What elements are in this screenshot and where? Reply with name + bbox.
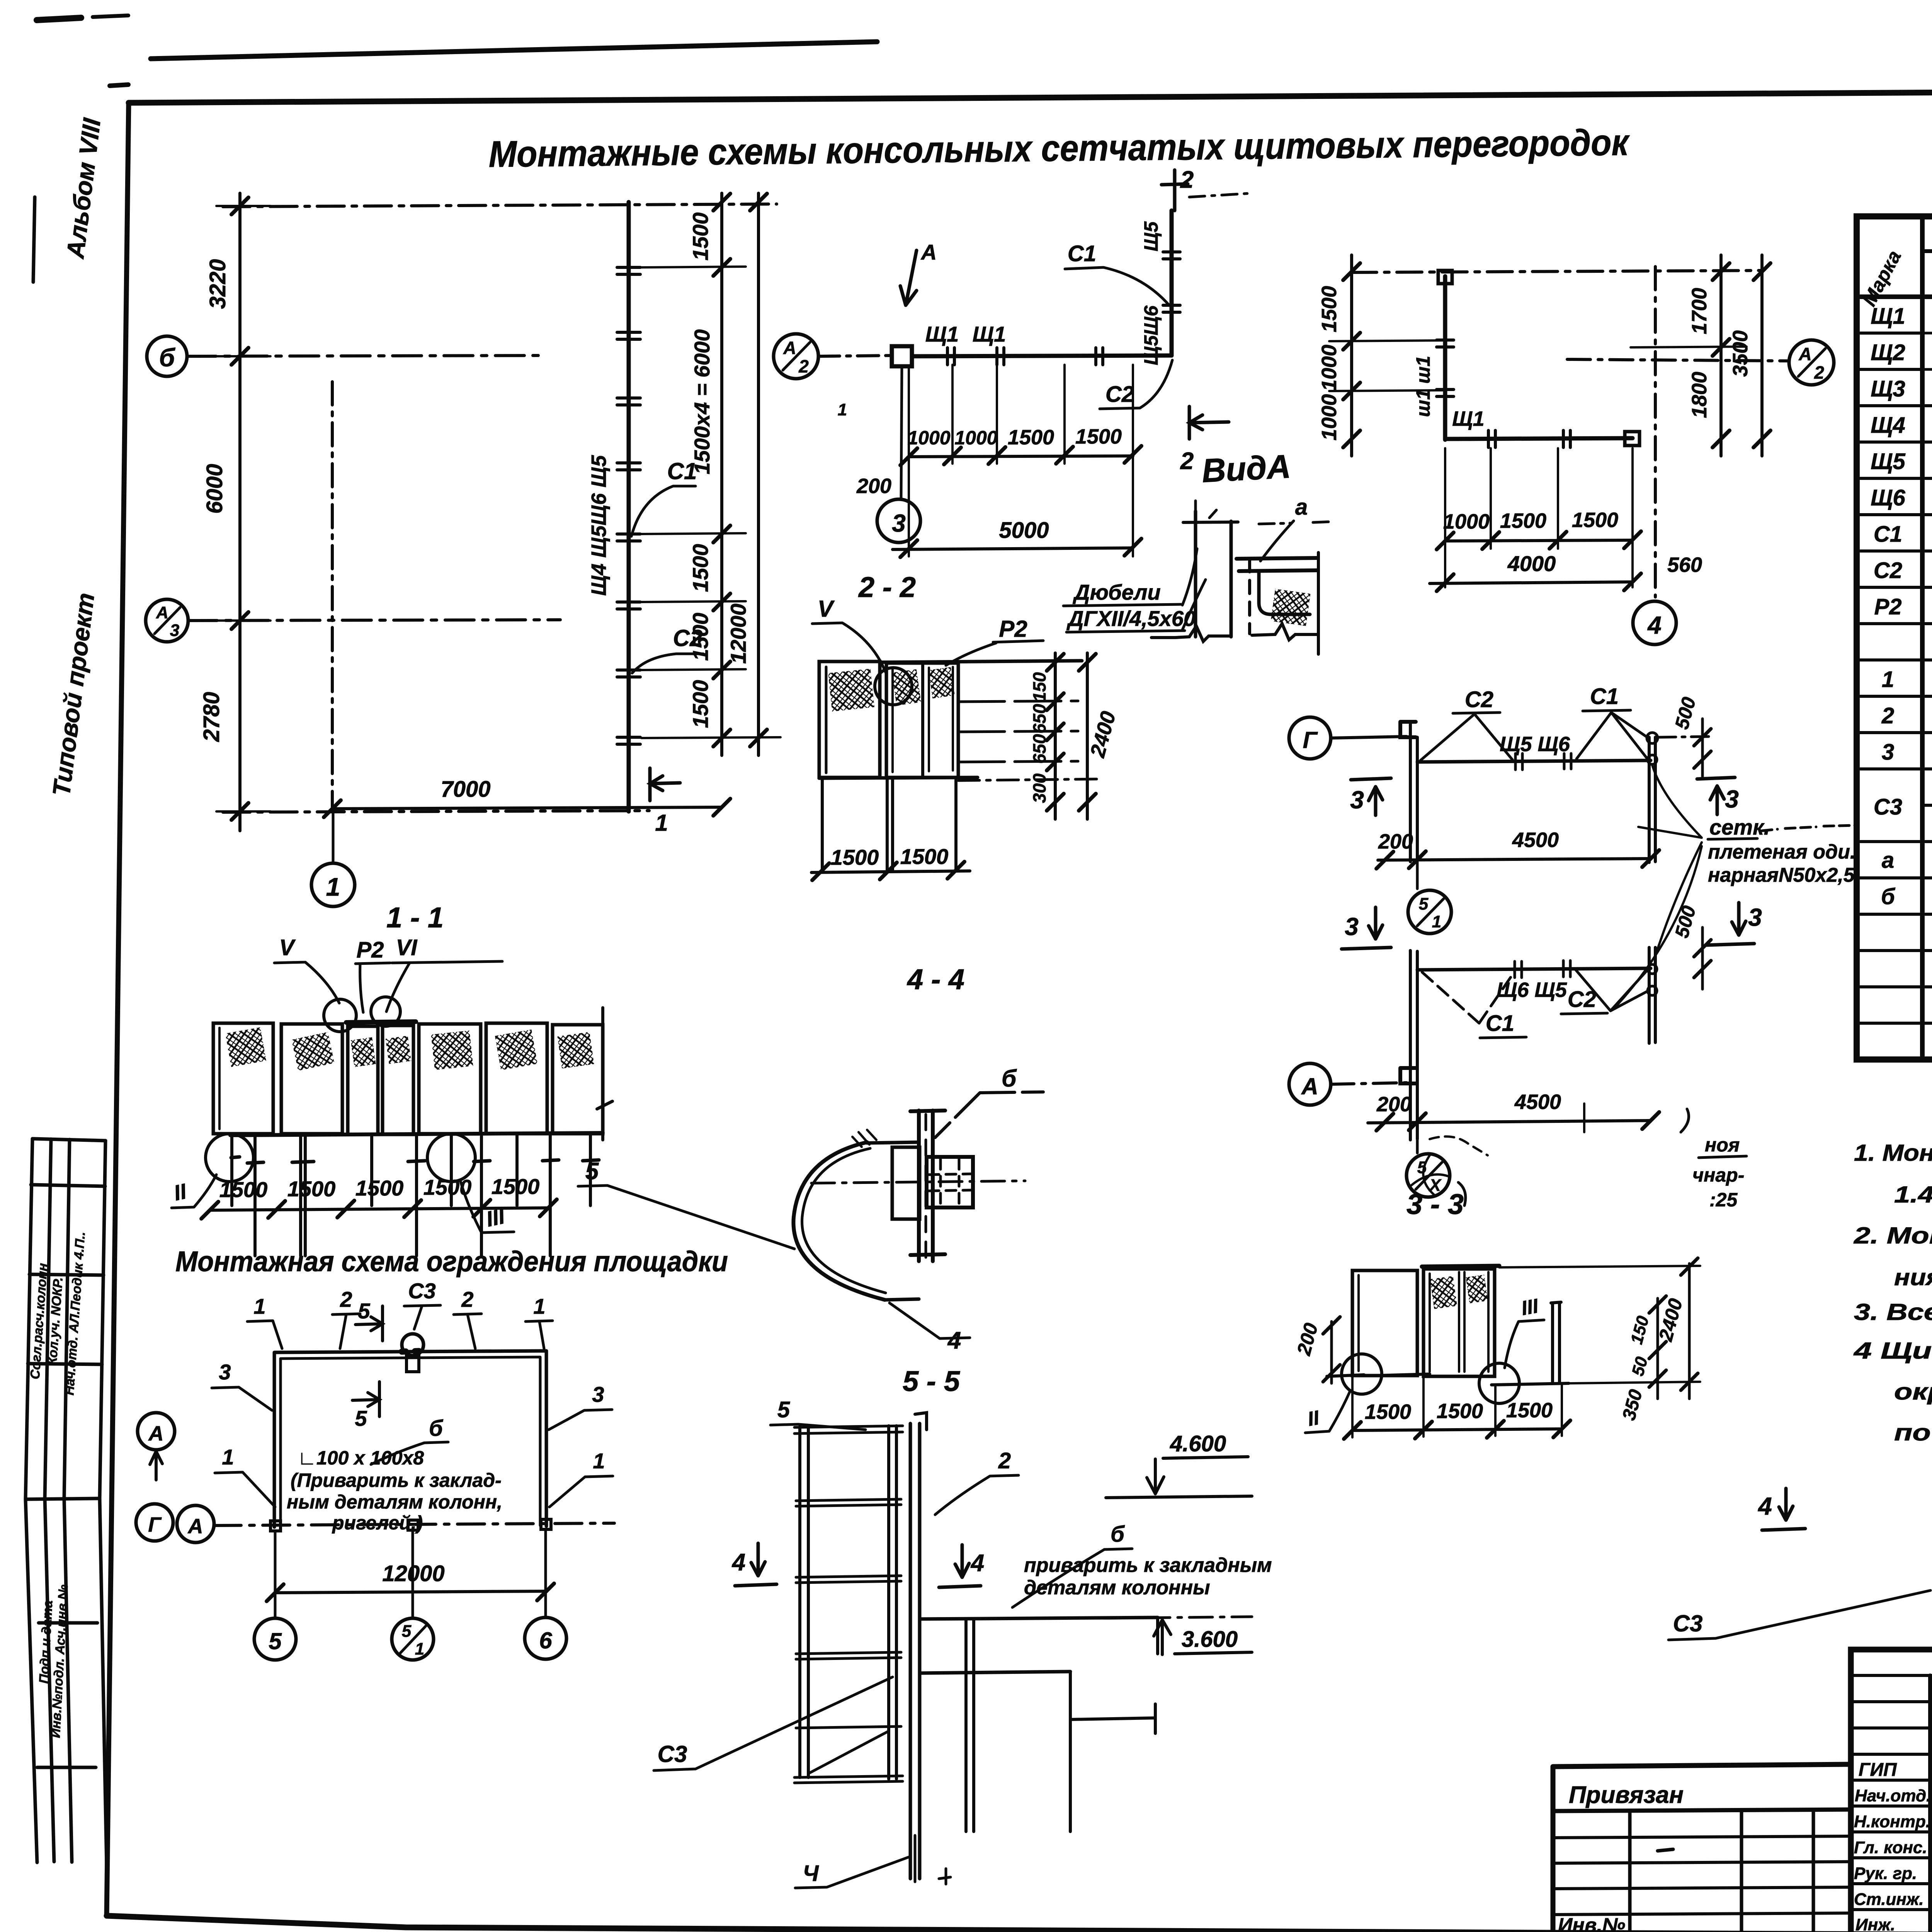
header group line bbox=[1922, 249, 1932, 253]
svg-text:1500: 1500 bbox=[1008, 426, 1054, 449]
grid circle A with arrow bbox=[138, 1413, 175, 1450]
leader fan from setka bbox=[1617, 765, 1702, 1005]
axis line down to circle 3 bbox=[901, 366, 902, 499]
vertical partition joints bbox=[1163, 252, 1180, 312]
plan inner vertical chain bbox=[331, 382, 334, 807]
svg-text:2: 2 bbox=[1814, 362, 1824, 383]
dash in cell bbox=[1658, 1849, 1673, 1851]
detail circle III bbox=[427, 1134, 475, 1182]
top bar over panels 3-4 bbox=[346, 1022, 416, 1022]
axis to circle 5/1 crossed bbox=[1416, 1139, 1419, 1153]
bracket vertical double line bbox=[919, 1111, 933, 1261]
top bar over panel B bbox=[1422, 1266, 1499, 1267]
fence top break (gate) bbox=[402, 1351, 424, 1352]
svg-text:1500: 1500 bbox=[1506, 1399, 1553, 1422]
svg-text:1000: 1000 bbox=[1318, 394, 1341, 440]
svg-text:2. Монтаж перегородок вест: 2. Монтаж перегородок вести в соответств… bbox=[1854, 1223, 1932, 1248]
leader C2 bbox=[632, 654, 703, 673]
svg-text:1500: 1500 bbox=[1500, 509, 1546, 532]
svg-text:Инж.: Инж. bbox=[1855, 1915, 1895, 1932]
brace C2 triangle lower bbox=[1576, 970, 1648, 1011]
svg-text:Гл. конс.: Гл. конс. bbox=[1854, 1838, 1927, 1857]
partition horizontal line bbox=[1445, 438, 1633, 439]
partition line vertical bbox=[1170, 211, 1174, 355]
svg-text:1: 1 bbox=[1882, 667, 1894, 692]
grid circle B bbox=[147, 336, 187, 376]
svg-text:Г: Г bbox=[1303, 727, 1318, 753]
svg-text:4: 4 bbox=[1757, 1492, 1772, 1520]
svg-text:Монтажная схема ограждения пло: Монтажная схема ограждения площадки bbox=[175, 1245, 728, 1277]
svg-text:С2: С2 bbox=[1874, 558, 1902, 583]
svg-text:200: 200 bbox=[1376, 1093, 1412, 1116]
svg-text:7000: 7000 bbox=[440, 777, 490, 802]
corner element double horizontals bbox=[1236, 558, 1317, 571]
right boundary line bbox=[1317, 553, 1320, 654]
svg-text:Щ1: Щ1 bbox=[1871, 304, 1905, 329]
extension lines to dim line 1 bbox=[641, 267, 781, 738]
weld ticks at top connection bbox=[852, 1130, 876, 1147]
section mark 2 top bbox=[1162, 170, 1188, 211]
svg-text:ноя: ноя bbox=[1705, 1134, 1740, 1156]
svg-text:4500: 4500 bbox=[1512, 828, 1559, 852]
panel 2 mesh patches bbox=[892, 669, 921, 706]
axis to circle 5/1 bbox=[1416, 862, 1419, 889]
chain from A bbox=[1331, 1083, 1406, 1084]
svg-text:С1: С1 bbox=[1486, 1011, 1514, 1036]
dim line 200/4500 upper bbox=[1378, 859, 1651, 860]
wall vertical line 1 bbox=[1194, 511, 1197, 637]
grid circle A lower bbox=[1289, 1063, 1331, 1105]
panel A plain bbox=[1352, 1270, 1417, 1376]
svg-text:4.600: 4.600 bbox=[1170, 1431, 1226, 1456]
panel 1 frame bbox=[819, 662, 880, 777]
svg-text:4500: 4500 bbox=[1514, 1090, 1561, 1114]
svg-text:Щ1: Щ1 bbox=[1452, 407, 1484, 430]
svg-text:1 - 1: 1 - 1 bbox=[386, 901, 444, 934]
vertical member upper bbox=[1410, 722, 1417, 862]
left vertical dimension line bbox=[238, 193, 241, 831]
post circle on top edge bbox=[402, 1334, 423, 1355]
extension verticals for dims bbox=[909, 365, 1133, 556]
column line Marka bbox=[1920, 216, 1925, 1060]
section arrow A (top) bbox=[900, 250, 917, 305]
svg-text:ДГХІІ/4,5х60: ДГХІІ/4,5х60 bbox=[1066, 606, 1196, 631]
right dims 150/50 bbox=[1656, 1298, 1659, 1399]
svg-text:Г: Г bbox=[148, 1513, 162, 1536]
svg-text:3: 3 bbox=[1748, 903, 1762, 931]
svg-text:Щ5: Щ5 bbox=[1140, 221, 1162, 251]
svg-text:С1: С1 bbox=[1590, 684, 1619, 709]
column axis circle 1 bbox=[332, 812, 335, 862]
bracket center dashed axis bbox=[925, 1114, 927, 1258]
dim 200 left bbox=[1330, 1321, 1333, 1383]
svg-text:1700: 1700 bbox=[1688, 288, 1711, 334]
column bracket lower bbox=[1400, 1068, 1416, 1083]
dim 500 lower bbox=[1701, 927, 1704, 989]
svg-text:Р2: Р2 bbox=[1874, 594, 1902, 619]
column axis circle 4 bbox=[1633, 601, 1676, 645]
panel joints bbox=[947, 348, 1103, 365]
section 3 up-arrow left bbox=[1351, 778, 1391, 815]
axis circle 5 bbox=[254, 1618, 296, 1660]
svg-text:Щ1: Щ1 bbox=[973, 322, 1006, 346]
dim line 12000 (vertical) bbox=[757, 193, 760, 755]
svg-text:Ч: Ч bbox=[803, 1861, 819, 1886]
svg-text:ш1 ш1: ш1 ш1 bbox=[1412, 356, 1434, 417]
dim line 7000 (horizontal) bbox=[332, 807, 722, 809]
panel joints on vertical partition bbox=[617, 267, 640, 744]
signature rows bbox=[1851, 1780, 1932, 1910]
bottom rail line bbox=[230, 1133, 603, 1135]
svg-text:Р2: Р2 bbox=[999, 616, 1027, 642]
panel 2 frame bbox=[886, 663, 958, 777]
svg-text:1500: 1500 bbox=[688, 613, 713, 661]
left paper edge tick bbox=[33, 197, 35, 282]
column axis circle 3 bbox=[877, 499, 920, 543]
svg-text:1500: 1500 bbox=[1437, 1400, 1483, 1423]
svg-text:С3: С3 bbox=[1673, 1611, 1703, 1636]
svg-text:3500: 3500 bbox=[1729, 330, 1752, 377]
grid circle A/2 left bbox=[774, 334, 818, 379]
svg-text:Щ2: Щ2 bbox=[1871, 340, 1905, 365]
svg-text:6000: 6000 bbox=[202, 464, 227, 514]
sheet border top bbox=[129, 88, 1932, 103]
panel 3 narrow bbox=[348, 1026, 378, 1134]
svg-text:Нач.отд.: Нач.отд. bbox=[1855, 1786, 1931, 1805]
svg-text:5000: 5000 bbox=[999, 518, 1049, 543]
svg-text:12000: 12000 bbox=[382, 1561, 444, 1586]
section 4 down-arrow bbox=[1762, 1488, 1805, 1530]
grid circle G bottom bbox=[136, 1504, 173, 1541]
svg-text:1: 1 bbox=[222, 1445, 234, 1469]
svg-text:560: 560 bbox=[1667, 553, 1702, 577]
svg-text:Р2: Р2 bbox=[357, 937, 384, 963]
svg-text:1: 1 bbox=[533, 1294, 545, 1318]
grid line A/3 chain bbox=[188, 620, 560, 621]
leader C1 bbox=[631, 486, 696, 536]
svg-text:1500: 1500 bbox=[287, 1177, 336, 1201]
grid circle A/3 bbox=[146, 599, 188, 642]
wall vertical line 2 bbox=[1230, 521, 1233, 637]
svg-text:2: 2 bbox=[340, 1287, 352, 1311]
top-left fold mark bbox=[110, 85, 128, 86]
svg-text:2: 2 bbox=[1180, 167, 1194, 193]
privyazan table frame bbox=[1553, 1764, 1851, 1932]
break zigzags bottom bbox=[1175, 626, 1231, 641]
dim line 1500 x5 bbox=[210, 1208, 548, 1210]
svg-text:4 - 4: 4 - 4 bbox=[906, 963, 964, 995]
corner vertical dashed bbox=[1248, 559, 1251, 634]
svg-text:Щ5Щ6: Щ5Щ6 bbox=[1140, 305, 1162, 366]
svg-text:нарнаяN50х2,5: нарнаяN50х2,5 bbox=[1708, 864, 1855, 886]
grating rungs bbox=[794, 1426, 903, 1783]
partition line horizontal bbox=[912, 355, 1172, 356]
legs below panels bbox=[822, 777, 956, 872]
upper partition line bbox=[1417, 760, 1651, 762]
svg-text:5: 5 bbox=[402, 1622, 412, 1641]
svg-text:4: 4 bbox=[947, 1327, 961, 1354]
panel 2 bbox=[281, 1024, 342, 1134]
panel 5 bbox=[419, 1024, 481, 1134]
svg-text:3: 3 bbox=[592, 1382, 604, 1406]
svg-text:1500: 1500 bbox=[688, 680, 713, 728]
clamp rect with hidden lines bbox=[927, 1157, 973, 1207]
chain stub right upper bbox=[1658, 736, 1712, 737]
svg-text:Щ1: Щ1 bbox=[925, 322, 959, 346]
panel 1 mesh bbox=[828, 669, 874, 712]
section 4 down arrow left bbox=[735, 1543, 777, 1586]
dim line 12000 bbox=[275, 1591, 546, 1593]
section 5 arrow lower bbox=[352, 1382, 379, 1417]
svg-text:1500: 1500 bbox=[688, 213, 713, 261]
ticks dim line 1 bbox=[713, 194, 730, 747]
svg-text:2780: 2780 bbox=[199, 692, 224, 742]
svg-text:2: 2 bbox=[461, 1287, 473, 1311]
svg-text:С2: С2 bbox=[1105, 382, 1134, 407]
svg-text:3.600: 3.600 bbox=[1182, 1627, 1238, 1652]
privyazan row line bbox=[1553, 1810, 1851, 1811]
svg-text:Щ4 Щ5Щ6 Щ5: Щ4 Щ5Щ6 Щ5 bbox=[587, 455, 611, 596]
svg-text:б: б bbox=[159, 343, 176, 372]
post feet bbox=[247, 1160, 599, 1163]
sheet border left bbox=[107, 103, 129, 1916]
svg-text:∟100 х 100х8: ∟100 х 100х8 bbox=[298, 1447, 424, 1469]
svg-text:(Приварить к заклад-: (Приварить к заклад- bbox=[291, 1469, 502, 1491]
grid circle G bbox=[1289, 717, 1331, 759]
fence rectangle outer bbox=[274, 1351, 546, 1527]
svg-text:1.431-10 вып. 2.: 1.431-10 вып. 2. bbox=[1894, 1182, 1932, 1207]
svg-text:3: 3 bbox=[1350, 786, 1364, 814]
svg-text:А: А bbox=[1798, 344, 1811, 364]
brace C1 triangle lower (apex down) bbox=[1420, 971, 1515, 1023]
panel 4 narrow bbox=[383, 1026, 413, 1134]
lower partition line bbox=[1417, 968, 1651, 970]
svg-text:1500х4 = 6000: 1500х4 = 6000 bbox=[690, 329, 714, 474]
chain from G bbox=[1331, 736, 1406, 738]
overall dim 5000 bbox=[893, 548, 1133, 549]
left dim line bbox=[1350, 255, 1353, 456]
svg-text:5: 5 bbox=[1419, 895, 1429, 913]
bottom dim line bbox=[1352, 1429, 1562, 1430]
corner frame bbox=[1259, 571, 1310, 614]
inspection circle on joint bbox=[875, 668, 912, 705]
detail circle right lower bbox=[1479, 1363, 1519, 1403]
section mark 2 bottom bbox=[1189, 406, 1229, 439]
inspection circle VI bbox=[371, 997, 400, 1026]
svg-text:плетеная оди.: плетеная оди. bbox=[1708, 841, 1855, 863]
brace C2 triangle upper bbox=[1420, 714, 1512, 760]
blank header rows bbox=[1851, 1675, 1932, 1754]
bottom dim line bbox=[811, 871, 970, 872]
svg-text:окрасить светлой серо - го: окрасить светлой серо - голубой эмалью П… bbox=[1894, 1379, 1932, 1405]
grating right rail bbox=[889, 1426, 896, 1779]
svg-text:200: 200 bbox=[1378, 830, 1413, 853]
column square bbox=[892, 346, 912, 366]
panel joints lower bbox=[1515, 961, 1570, 978]
dim 2400 right bbox=[1688, 1264, 1691, 1399]
svg-text:1: 1 bbox=[326, 872, 340, 901]
svg-text:1: 1 bbox=[593, 1449, 605, 1473]
svg-text:5: 5 bbox=[358, 1299, 370, 1323]
svg-text:3220: 3220 bbox=[205, 259, 230, 309]
svg-text:5: 5 bbox=[269, 1628, 282, 1654]
header bottom line bbox=[1857, 294, 1932, 299]
svg-text:С3: С3 bbox=[408, 1279, 436, 1303]
svg-text:4: 4 bbox=[970, 1550, 984, 1577]
detail circle II lower bbox=[1342, 1354, 1382, 1394]
section mark 1 (right) bbox=[650, 768, 680, 801]
svg-text:1800: 1800 bbox=[1688, 372, 1711, 418]
svg-text:3: 3 bbox=[219, 1360, 231, 1384]
svg-text:б: б bbox=[1111, 1522, 1125, 1547]
svg-text:б: б bbox=[1002, 1065, 1017, 1092]
hook-to-bracket connections bbox=[867, 1142, 919, 1300]
center chain line bbox=[811, 1181, 1025, 1183]
top short ticks bbox=[1196, 501, 1216, 533]
right dim line 1700/1800 bbox=[1719, 255, 1723, 456]
grid circle A/2 right bbox=[1789, 340, 1834, 385]
svg-text:4: 4 bbox=[731, 1549, 745, 1576]
bracket bottom cap bbox=[910, 1254, 945, 1255]
svg-text:а: а bbox=[1882, 848, 1894, 873]
svg-text:А: А bbox=[1301, 1073, 1318, 1099]
svg-text:4 Щитовые перегородки и: 4 Щитовые перегородки и ограждения площа… bbox=[1854, 1338, 1932, 1364]
svg-text:С2: С2 bbox=[1465, 687, 1493, 712]
svg-text:сетк.: сетк. bbox=[1709, 815, 1770, 839]
row lines bbox=[1857, 332, 1932, 335]
panel 7 bbox=[553, 1025, 603, 1134]
dim ticks on left dim line bbox=[231, 197, 248, 820]
svg-text:по одному слою лака ПФ -: по одному слою лака ПФ - 110. bbox=[1894, 1420, 1932, 1446]
svg-text:А: А bbox=[920, 240, 937, 264]
grating left rail bbox=[800, 1427, 808, 1777]
svg-text:Привязан: Привязан bbox=[1569, 1782, 1684, 1808]
plan top chain line bbox=[223, 204, 777, 207]
dim 2400 bbox=[1086, 653, 1089, 819]
svg-text:5: 5 bbox=[355, 1406, 367, 1430]
dim line 1500x4 (vertical) bbox=[720, 193, 723, 755]
svg-text:1. Монтажные узлы перег: 1. Монтажные узлы перегородок приняты по… bbox=[1854, 1140, 1932, 1166]
svg-text:2: 2 bbox=[798, 356, 809, 376]
detail circle II bbox=[206, 1134, 253, 1182]
svg-text:Инв.№: Инв.№ bbox=[1558, 1914, 1625, 1932]
svg-text:б: б bbox=[1881, 884, 1896, 909]
privyazan inner rows bbox=[1553, 1836, 1851, 1915]
svg-text:А: А bbox=[187, 1515, 203, 1538]
horizontal rails right bbox=[958, 701, 1078, 762]
right posts lower bbox=[1649, 947, 1655, 1043]
inner plate rect bbox=[892, 1147, 920, 1219]
top tick line bbox=[1183, 522, 1238, 522]
section 3 up-arrow right bbox=[1697, 777, 1735, 815]
hook curve inner bbox=[802, 1148, 886, 1293]
vertical member lower bbox=[1410, 951, 1417, 1140]
svg-text:300: 300 bbox=[1029, 773, 1049, 803]
svg-text:1500: 1500 bbox=[355, 1176, 404, 1200]
axis circle 5/1 bbox=[392, 1618, 434, 1660]
roles col divider bbox=[1928, 1675, 1932, 1932]
chain from A/2 to column bbox=[818, 355, 893, 356]
svg-text:Щ4: Щ4 bbox=[1871, 413, 1905, 438]
svg-text:Ст.инж.: Ст.инж. bbox=[1854, 1890, 1924, 1909]
svg-text:Рук. гр.: Рук. гр. bbox=[1854, 1864, 1917, 1883]
svg-text:200: 200 bbox=[856, 474, 891, 498]
panel 6 bbox=[486, 1023, 547, 1134]
svg-text:ниями серии 1.431 - 10 вып: ниями серии 1.431 - 10 вып. 2. bbox=[1894, 1264, 1932, 1290]
svg-text:С1: С1 bbox=[1874, 522, 1902, 547]
privyazan inner columns bbox=[1630, 1810, 1813, 1932]
svg-text:5: 5 bbox=[585, 1158, 599, 1185]
grid circle A bottom bbox=[177, 1505, 214, 1543]
right dim line 650s bbox=[1054, 653, 1057, 819]
bottom chain extension bbox=[958, 779, 1101, 781]
svg-text:С3: С3 bbox=[1874, 794, 1902, 820]
svg-text:V: V bbox=[818, 596, 835, 622]
svg-text:VI: VI bbox=[396, 935, 418, 960]
svg-text:ВидА: ВидА bbox=[1201, 448, 1292, 490]
svg-text:С1: С1 bbox=[1068, 241, 1096, 266]
overall dim 4000 bbox=[1430, 582, 1633, 583]
svg-text:4: 4 bbox=[1647, 611, 1662, 639]
svg-text:С3: С3 bbox=[658, 1741, 687, 1767]
sheet border bottom bbox=[107, 1916, 1932, 1932]
svg-text:650: 650 bbox=[1029, 734, 1049, 764]
svg-text:Щ5 Щ6: Щ5 Щ6 bbox=[1500, 733, 1570, 756]
axis circle 6 bbox=[525, 1617, 566, 1659]
svg-text:1000: 1000 bbox=[1443, 510, 1490, 533]
partition vertical line bbox=[1443, 276, 1447, 440]
svg-text:5: 5 bbox=[777, 1397, 790, 1422]
svg-text:2: 2 bbox=[998, 1448, 1011, 1473]
section 3 down-arrow left bbox=[1342, 907, 1391, 949]
svg-text:Щ3: Щ3 bbox=[1871, 376, 1905, 401]
section 5 arrow top bbox=[355, 1306, 383, 1341]
panel B frame with mesh bbox=[1423, 1269, 1495, 1376]
svg-text:1500: 1500 bbox=[423, 1175, 472, 1199]
svg-text:3: 3 bbox=[170, 621, 179, 640]
horizontal chain to A/2 bbox=[1567, 359, 1788, 361]
lower dim line segments bbox=[909, 456, 1133, 457]
panel joints upper bbox=[1515, 753, 1571, 770]
section 3 down-arrow right bbox=[1706, 903, 1754, 945]
svg-text:2 - 2: 2 - 2 bbox=[858, 571, 916, 603]
svg-text:4000: 4000 bbox=[1507, 551, 1556, 576]
dim line 200/4500 lower bbox=[1368, 1121, 1651, 1123]
grating diagonal brace bbox=[808, 1731, 889, 1774]
svg-text:1000: 1000 bbox=[1318, 345, 1341, 391]
svg-text:Дюбели: Дюбели bbox=[1073, 580, 1161, 604]
svg-text:3: 3 bbox=[1345, 913, 1359, 940]
svg-text:ГИП: ГИП bbox=[1859, 1760, 1897, 1780]
svg-text:6: 6 bbox=[539, 1628, 552, 1653]
joints on vertical bbox=[1437, 340, 1454, 396]
paper top edge line bbox=[151, 42, 877, 59]
svg-text:2: 2 bbox=[1180, 448, 1194, 474]
svg-text:1: 1 bbox=[838, 400, 847, 419]
svg-text:2: 2 bbox=[1881, 703, 1894, 728]
svg-text:1000: 1000 bbox=[954, 427, 997, 449]
panel 1 bbox=[213, 1023, 273, 1134]
ground line bbox=[1327, 1374, 1569, 1385]
svg-text:Щ5: Щ5 bbox=[1871, 449, 1905, 474]
extension ticks left dim bbox=[216, 206, 270, 811]
svg-text:Щ6: Щ6 bbox=[1871, 485, 1905, 510]
svg-text:1: 1 bbox=[415, 1639, 424, 1658]
svg-text:1500: 1500 bbox=[831, 845, 879, 869]
svg-text:А: А bbox=[148, 1422, 164, 1445]
svg-text:3 - 3: 3 - 3 bbox=[1406, 1188, 1464, 1220]
svg-text:150: 150 bbox=[1029, 672, 1049, 702]
